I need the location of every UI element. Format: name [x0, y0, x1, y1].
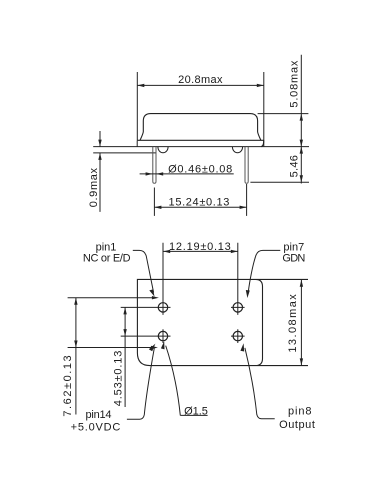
dim 13.08max arrow up [300, 280, 303, 287]
svg-text:7.62±0.13: 7.62±0.13 [62, 354, 74, 417]
svg-text:NC or E/D: NC or E/D [83, 252, 131, 264]
dim 15.24 arrow left [154, 206, 161, 209]
svg-text:20.8max: 20.8max [178, 74, 223, 86]
svg-text:4.53±0.13: 4.53±0.13 [112, 350, 124, 407]
left standoff dome [158, 147, 168, 153]
dim 0.9max lower shaft [99, 153, 101, 212]
dim 5.46 arrow down (at lead tips) [300, 175, 303, 182]
right standoff dome [232, 147, 242, 153]
dim 4.53 dimension line [124, 307, 126, 407]
can top extension to right dim [258, 113, 309, 115]
can base plate (header) top edge [137, 139, 264, 141]
svg-text:Ø0.46±0.08: Ø0.46±0.08 [168, 163, 233, 175]
pin1 leader arrow [149, 289, 154, 296]
svg-text:0.9max: 0.9max [88, 167, 100, 207]
dim 5.08max/5.46 vertical dimension line [300, 55, 302, 184]
svg-text:Ø1.5: Ø1.5 [184, 405, 208, 417]
dim 0.9max extension above [99, 131, 101, 147]
dim 12.19 dimension line [163, 250, 238, 252]
hole pin1 (top-left) [158, 303, 167, 312]
dim 7.62 dimension line [75, 298, 77, 415]
left lead centerline [153, 188, 155, 216]
lead tip extension line (right) [250, 181, 309, 183]
dim dia0.46 arrow right (at lead left edge) [146, 172, 153, 175]
pin7 label leader [248, 250, 280, 291]
dim 20.8max arrow left [137, 84, 144, 87]
dim 12.19 arrow left [163, 250, 170, 253]
dim 20.8max dimension line [137, 84, 263, 86]
dim 7.62 bottom extension with arrow [68, 347, 151, 349]
pin14 label leader [127, 348, 154, 419]
svg-text:12.19±0.13: 12.19±0.13 [169, 241, 231, 253]
hole pin14 crosshair [121, 329, 171, 343]
right lead (pin) [245, 147, 248, 183]
dim 13.08max arrow down [300, 358, 303, 365]
svg-text:15.24±0.13: 15.24±0.13 [169, 197, 230, 209]
pin8 leader arrow [240, 343, 244, 351]
svg-text:+5.0VDC: +5.0VDC [71, 422, 122, 434]
dim 15.24 arrow right [240, 206, 247, 209]
dim dia0.46 leader line [140, 173, 234, 175]
hole pin8 crosshair [231, 329, 245, 343]
dia1.5 leader [166, 346, 181, 416]
dim 20.8max extension line left [136, 72, 138, 140]
right lead centerline [246, 184, 248, 216]
dim 5.08max arrow down (at plate bottom) [300, 140, 303, 147]
dim 13.08max dimension line [300, 280, 302, 366]
dim 5.08max arrow up (at can top) [300, 114, 303, 121]
dim 7.62 arrow up [74, 298, 77, 305]
base plate bottom line extended (seating reference A) [93, 146, 309, 148]
dim 0.9max arrow down (at plate bottom) [98, 140, 101, 147]
package outline (bottom view) [137, 279, 308, 365]
pin14 leader arrow [149, 344, 156, 352]
hole pin14 (bottom-left) [158, 331, 167, 340]
dim 20.8max extension line right [263, 72, 265, 146]
hole pin7 (top-right) [233, 303, 242, 312]
dim dia0.46 arrow left (at lead right edge) [156, 172, 163, 175]
dim 15.24 dimension line [154, 206, 246, 208]
base plate right side with corner [261, 140, 264, 146]
svg-text:5.08max: 5.08max [289, 60, 301, 108]
dim 4.53 arrow down [123, 329, 126, 336]
dia1.5 leader arrow [161, 341, 165, 349]
svg-text:5.46: 5.46 [289, 155, 301, 178]
dim 4.53 arrow up [123, 307, 126, 314]
hole pin1 crosshair [121, 243, 171, 315]
svg-text:13.08max: 13.08max [287, 293, 299, 353]
pin1 label leader [133, 250, 154, 292]
pin8 label leader [245, 348, 275, 419]
dim 0.9max arrow up (at seating plane) [98, 153, 101, 160]
dia1.5 label underline [180, 414, 207, 416]
dim 5.46 arrow up (at plate bottom) [300, 147, 303, 154]
oscillator can (top view lid) [140, 114, 261, 141]
svg-text:Output: Output [279, 419, 315, 431]
left lead (pin) [153, 147, 156, 183]
dim 7.62 top extension with arrow [68, 297, 152, 299]
dim 20.8max arrow right [257, 84, 264, 87]
seating plane line (reference B) [93, 152, 156, 154]
dim 12.19 arrow right [231, 250, 238, 253]
base plate left side [136, 140, 138, 146]
svg-text:pin8: pin8 [288, 406, 312, 418]
pin7 leader arrow [246, 290, 250, 298]
svg-text:GDN: GDN [282, 252, 305, 264]
svg-text:pin14: pin14 [85, 409, 111, 421]
hole pin8 (bottom-right) [233, 331, 242, 340]
hole pin7 crosshair [231, 243, 245, 315]
dim 7.62 arrow down [74, 341, 77, 348]
